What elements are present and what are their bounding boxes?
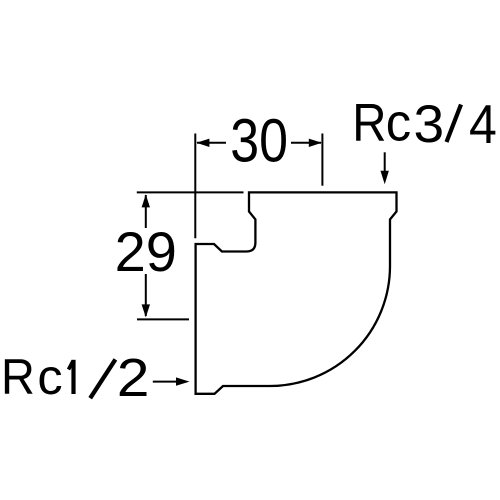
svg-text:29: 29 bbox=[115, 220, 177, 283]
svg-text:R: R bbox=[352, 93, 386, 152]
svg-text:c: c bbox=[386, 93, 411, 152]
svg-text:30: 30 bbox=[230, 108, 288, 176]
svg-text:c: c bbox=[37, 348, 62, 405]
svg-text:2: 2 bbox=[117, 347, 150, 407]
svg-text:3: 3 bbox=[414, 95, 445, 154]
svg-text:4: 4 bbox=[469, 94, 497, 156]
svg-text:R: R bbox=[1, 350, 35, 406]
